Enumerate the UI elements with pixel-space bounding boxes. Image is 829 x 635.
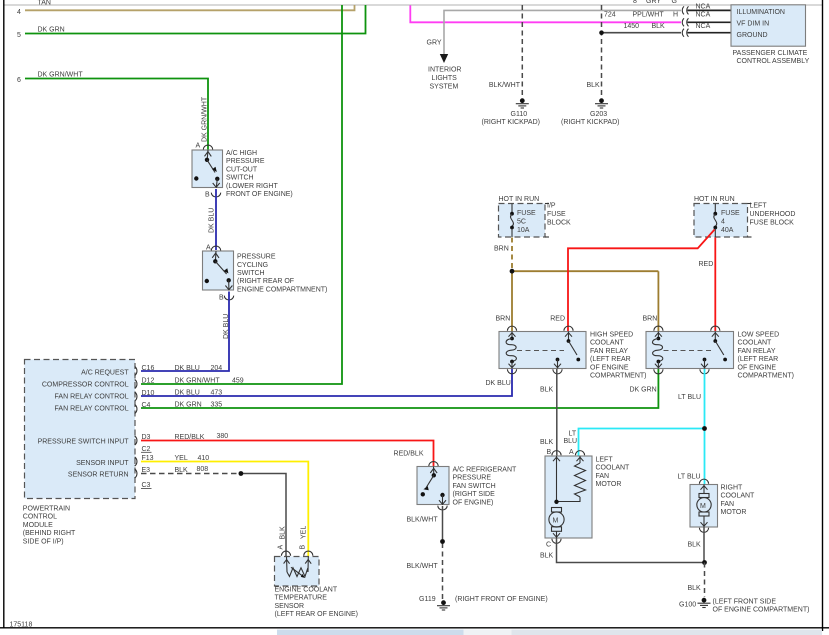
svg-text:4: 4 [17,9,21,16]
svg-text:SENSOR RETURN: SENSOR RETURN [68,471,129,478]
svg-text:C: C [546,542,551,549]
left coolant fan motor [545,449,630,549]
svg-text:175118: 175118 [10,622,33,629]
svg-text:COMPRESSOR CONTROL: COMPRESSOR CONTROL [42,381,129,388]
svg-text:HIGH SPEED: HIGH SPEED [590,332,633,339]
svg-text:COOLANT: COOLANT [721,493,756,500]
svg-text:D12: D12 [142,377,155,384]
svg-text:DK GRN: DK GRN [175,402,202,409]
svg-text:HOT IN RUN: HOT IN RUN [694,196,735,203]
wire GRY to interior lights system [427,0,682,54]
svg-text:5: 5 [17,32,21,39]
svg-text:PRESSURE: PRESSURE [453,475,492,482]
svg-text:SENSOR INPUT: SENSOR INPUT [76,460,129,467]
svg-text:POWERTRAIN: POWERTRAIN [23,506,70,513]
PCM pin C16 [135,367,137,376]
node 6 / wire DK GRN/WHT to A/C high pressure switch [17,72,209,150]
svg-text:COMPARTMENT): COMPARTMENT) [590,373,647,380]
svg-text:459: 459 [232,377,244,384]
svg-text:8: 8 [633,0,637,5]
svg-text:LEFT: LEFT [750,203,768,210]
svg-text:B: B [547,449,552,456]
svg-text:PRESSURE: PRESSURE [237,254,276,261]
svg-text:DK GRN/WHT: DK GRN/WHT [38,72,84,79]
svg-text:TEMPERATURE: TEMPERATURE [275,595,328,602]
wire LT BLU from low speed relay to fan motors [564,369,705,485]
svg-text:FAN RELAY: FAN RELAY [590,348,628,355]
svg-text:LEFT: LEFT [596,457,614,464]
svg-text:FAN RELAY CONTROL: FAN RELAY CONTROL [55,405,129,412]
svg-text:DK BLU: DK BLU [175,390,200,397]
svg-text:(LEFT REAR: (LEFT REAR [590,356,631,363]
wire DK GRN/WHT circuit 459 from PCM D12 up to top edge [141,5,342,384]
svg-text:A/C HIGH: A/C HIGH [226,150,257,157]
svg-text:SWITCH: SWITCH [226,175,254,182]
wire DK BLU between switches [209,189,217,250]
svg-text:DK BLU: DK BLU [223,314,230,339]
svg-text:LOW SPEED: LOW SPEED [738,332,780,339]
svg-text:DK GRN: DK GRN [38,27,65,34]
svg-text:MODULE: MODULE [23,522,53,529]
svg-text:BRN: BRN [643,316,658,323]
svg-text:ENGINE COMPARTMNENT): ENGINE COMPARTMNENT) [237,286,327,293]
svg-text:BLOCK: BLOCK [547,220,571,227]
svg-text:MOTOR: MOTOR [721,509,747,516]
svg-text:SYSTEM: SYSTEM [430,84,459,91]
svg-text:RIGHT: RIGHT [721,485,744,492]
svg-text:FAN: FAN [596,473,610,480]
svg-text:BLK: BLK [279,526,286,540]
wire DK BLU 473 from PCM D10 to high speed relay coil [141,369,512,397]
page right border [822,0,824,631]
ground G110 (right kickpad) [482,98,540,126]
svg-text:PRESSURE SWITCH INPUT: PRESSURE SWITCH INPUT [38,438,130,445]
svg-text:SENSOR: SENSOR [275,603,305,610]
svg-text:GRY: GRY [427,40,442,47]
right coolant fan motor [690,479,755,532]
svg-text:BLK: BLK [587,82,601,89]
svg-text:(RIGHT KICKPAD): (RIGHT KICKPAD) [482,119,540,126]
svg-text:YEL: YEL [301,526,308,539]
svg-text:4: 4 [721,218,725,225]
svg-text:5C: 5C [517,218,526,225]
svg-text:FAN: FAN [721,501,735,508]
svg-text:NCA: NCA [696,12,711,19]
splice node on LT BLU [702,426,707,431]
svg-text:DK BLU: DK BLU [209,208,216,233]
svg-text:40A: 40A [721,227,734,234]
svg-text:COOLANT: COOLANT [738,340,773,347]
svg-text:CYCLING: CYCLING [237,262,268,269]
PCM pin C2 [141,446,152,453]
svg-text:BLU: BLU [564,438,578,445]
svg-text:GRY: GRY [646,0,661,5]
svg-text:(LOWER RIGHT: (LOWER RIGHT [226,183,278,190]
ground G100 (left front side of engine compartment) [679,598,809,614]
svg-text:SWITCH: SWITCH [237,270,265,277]
PCM pin F13 [135,455,154,466]
svg-text:OF ENGINE: OF ENGINE [590,364,629,371]
svg-text:NCA: NCA [696,23,711,30]
wire BLK from right fan motor to splice [688,527,705,563]
PCM pin E3 [135,467,150,478]
svg-text:BLK/WHT: BLK/WHT [489,82,521,89]
wire YEL 410 from PCM F13 to coolant temp sensor B [141,455,308,557]
svg-text:OF ENGINE): OF ENGINE) [453,499,494,506]
svg-text:(RIGHT SIDE: (RIGHT SIDE [453,491,496,498]
wire BRN from fuse 5C to relay coils [494,238,658,332]
wire RED/BLK 380 from PCM D3 to A/C refrigerant pressure fan switch [141,433,434,466]
svg-text:335: 335 [211,402,223,409]
svg-text:RED: RED [699,261,714,268]
svg-text:LT BLU: LT BLU [678,394,701,401]
svg-text:RED: RED [550,316,565,323]
splice node of fan motor grounds [702,560,707,565]
svg-text:GROUND: GROUND [737,32,768,39]
svg-text:10A: 10A [517,227,530,234]
wire BLK from high speed relay to left fan motor B [540,369,557,456]
powertrain control module [23,360,135,546]
svg-text:CONTROL: CONTROL [23,514,57,521]
svg-text:TAN: TAN [38,0,51,7]
svg-text:LT: LT [569,431,577,438]
svg-text:BLK: BLK [540,439,554,446]
svg-text:PASSENGER CLIMATE: PASSENGER CLIMATE [733,50,808,57]
svg-text:BLK: BLK [540,553,554,560]
svg-text:FAN RELAY CONTROL: FAN RELAY CONTROL [55,393,129,400]
svg-text:COOLANT: COOLANT [590,340,625,347]
svg-text:DK GRN: DK GRN [630,387,657,394]
svg-text:BRN: BRN [494,246,509,253]
svg-text:C3: C3 [142,482,151,489]
svg-text:LIGHTS: LIGHTS [432,75,458,82]
PCM pin C4 [135,402,151,414]
wire DK GRN 335 from PCM C4 to low speed relay coil [141,369,658,409]
svg-text:380: 380 [217,433,229,440]
svg-text:BLK/WHT: BLK/WHT [407,563,439,570]
svg-text:(RIGHT KICKPAD): (RIGHT KICKPAD) [561,119,619,126]
svg-text:DK GRN/WHT: DK GRN/WHT [202,96,209,142]
svg-text:G100: G100 [679,602,696,609]
svg-text:(LEFT FRONT SIDE: (LEFT FRONT SIDE [713,599,777,606]
svg-text:6: 6 [17,77,21,84]
page left border [3,0,5,628]
splice node on BLK 808 [239,471,244,476]
svg-text:YEL: YEL [175,455,188,462]
connector NCA row 3 (ground) [682,23,731,37]
connector NCA row 1 (pin G) [682,4,731,15]
svg-text:SIDE OF I/P): SIDE OF I/P) [23,538,64,545]
node 5 / wire DK GRN [17,5,366,39]
page top border [4,4,823,6]
svg-text:BLK: BLK [688,542,702,549]
wire PPL/WHT 724 to VF DIM IN [410,5,681,22]
splice node on BRN [510,269,515,274]
PCM pin D10 [135,390,155,401]
svg-text:BLK: BLK [540,387,554,394]
svg-text:FAN SWITCH: FAN SWITCH [453,483,496,490]
high speed coolant fan relay [499,326,647,379]
svg-text:M: M [553,518,559,525]
svg-text:RED/BLK: RED/BLK [394,450,424,457]
svg-text:1450: 1450 [624,23,640,30]
scrollbar thumb [277,630,464,635]
svg-text:473: 473 [211,390,223,397]
svg-text:B: B [299,545,306,550]
svg-text:G: G [672,0,677,5]
svg-text:ENGINE COOLANT: ENGINE COOLANT [275,587,338,594]
svg-text:COMPARTMENT): COMPARTMENT) [738,373,795,380]
A/C refrigerant pressure fan switch [417,462,517,510]
splice node on BLK/WHT [440,539,445,544]
node 4 / wire TAN [17,0,355,16]
wire DK BLU 204 from pressure cycling switch to PCM C16 [141,292,230,372]
svg-text:C2: C2 [142,446,151,453]
svg-text:FAN RELAY: FAN RELAY [738,348,776,355]
figure number 175118 [10,622,33,629]
svg-text:A: A [196,143,201,150]
svg-text:FUSE: FUSE [517,210,536,217]
svg-text:A/C REFRIGERANT: A/C REFRIGERANT [453,467,518,474]
svg-text:DK BLU: DK BLU [486,380,511,387]
low speed coolant fan relay [646,326,794,379]
PCM pin C3 [141,482,152,489]
svg-text:NCA: NCA [696,4,711,11]
connector NCA row 2 (pin H) [682,12,731,27]
engine coolant temperature sensor [275,545,359,619]
arrow to interior lights system [428,54,461,91]
svg-text:RED/BLK: RED/BLK [175,434,205,441]
passenger climate control assembly [731,5,810,65]
scrollbar track [464,630,823,635]
svg-text:FUSE: FUSE [721,210,740,217]
svg-text:724: 724 [604,12,616,19]
fuse 5C I/P fuse block [499,196,572,237]
pressure cycling switch [203,245,328,302]
wire BLK from left fan motor C to splice [540,538,705,563]
svg-text:G119: G119 [419,596,436,603]
svg-text:HOT IN RUN: HOT IN RUN [499,196,540,203]
wire BLK/WHT to G110 [489,5,522,97]
wire BLK/WHT from fan switch to G119 [407,506,443,599]
wire RED from fuse 4 to relay switches [550,230,715,332]
A/C high pressure cut-out switch [192,143,293,199]
svg-text:H: H [673,12,678,19]
svg-text:BLK: BLK [175,467,189,474]
ground G203 (right kickpad) [561,98,619,126]
svg-text:(LEFT REAR: (LEFT REAR [738,356,779,363]
wire BLK to G100 [688,563,705,598]
svg-text:DK BLU: DK BLU [175,365,200,372]
svg-text:UNDERHOOD: UNDERHOOD [750,211,796,218]
PCM pin D12 [135,377,155,388]
svg-text:OF ENGINE: OF ENGINE [738,364,777,371]
svg-text:ILLUMINATION: ILLUMINATION [737,9,786,16]
svg-text:(BEHIND RIGHT: (BEHIND RIGHT [23,530,76,537]
svg-text:COOLANT: COOLANT [596,465,631,472]
splice node on BLK ground wire [599,30,604,35]
svg-text:BLK/WHT: BLK/WHT [407,517,439,524]
svg-text:VF DIM IN: VF DIM IN [737,20,770,27]
svg-text:B: B [205,192,210,199]
svg-text:A: A [569,449,574,456]
svg-text:(RIGHT REAR OF: (RIGHT REAR OF [237,278,294,285]
svg-text:PPL/WHT: PPL/WHT [633,12,665,19]
svg-text:MOTOR: MOTOR [596,481,622,488]
PCM pin D3 [135,434,151,445]
svg-text:204: 204 [211,365,223,372]
wire BLK 808 from PCM E3 to coolant temp sensor A [141,466,286,557]
svg-text:DK GRN/WHT: DK GRN/WHT [175,377,221,384]
svg-text:I/P: I/P [547,203,556,210]
svg-text:BLK: BLK [688,585,702,592]
svg-text:INTERIOR: INTERIOR [428,67,461,74]
ground G119 (right front of engine) [419,596,548,610]
svg-text:CONTROL ASSEMBLY: CONTROL ASSEMBLY [737,58,810,65]
svg-text:410: 410 [198,455,210,462]
svg-text:B: B [219,295,224,302]
svg-text:(RIGHT FRONT OF ENGINE): (RIGHT FRONT OF ENGINE) [455,596,548,603]
svg-text:G203: G203 [590,111,607,118]
svg-text:A: A [277,545,284,550]
svg-text:PRESSURE: PRESSURE [226,158,265,165]
svg-text:808: 808 [197,466,209,473]
svg-text:BLK: BLK [652,23,666,30]
fuse 4 left underhood fuse block [694,196,795,237]
svg-text:OF ENGINE COMPARTMENT): OF ENGINE COMPARTMENT) [713,607,810,614]
page bottom border [0,627,829,629]
svg-text:M: M [700,503,706,510]
wire BLK 1450 to GROUND pin and G203 [587,5,682,97]
svg-text:CUT-OUT: CUT-OUT [226,166,258,173]
svg-text:G110: G110 [511,111,528,118]
svg-text:A/C REQUEST: A/C REQUEST [81,369,129,376]
svg-text:LT BLU: LT BLU [678,474,701,481]
svg-text:FUSE BLOCK: FUSE BLOCK [750,220,795,227]
svg-text:(LEFT REAR OF ENGINE): (LEFT REAR OF ENGINE) [275,611,359,618]
svg-text:FRONT OF ENGINE): FRONT OF ENGINE) [226,191,293,198]
svg-text:BRN: BRN [496,316,511,323]
svg-text:FUSE: FUSE [547,211,566,218]
svg-text:C16: C16 [142,365,155,372]
svg-text:A: A [206,245,211,252]
